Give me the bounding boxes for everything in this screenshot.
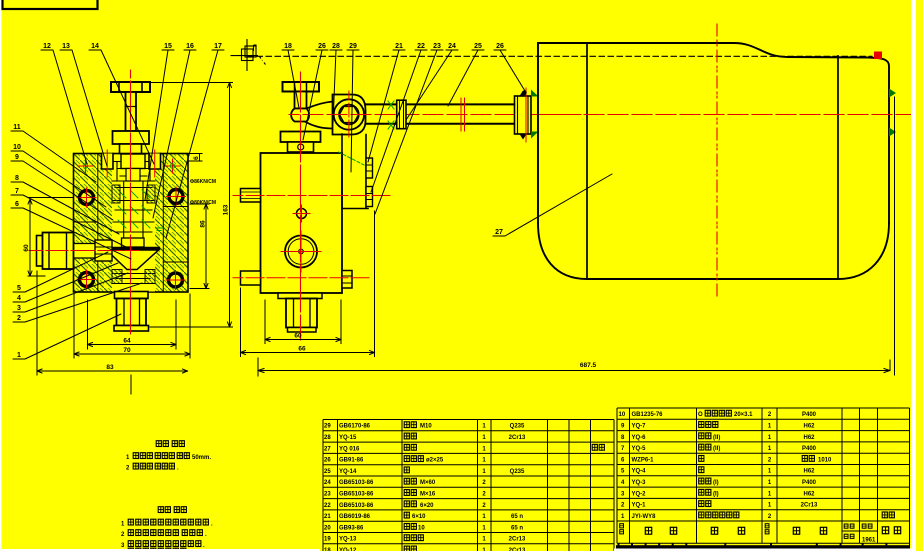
svg-text:66: 66 [298, 346, 306, 353]
svg-text:H62: H62 [803, 469, 815, 475]
piston rod to tank [366, 104, 515, 123]
svg-text:10: 10 [418, 525, 425, 531]
inlet passage from left fitting [74, 244, 113, 259]
svg-text:GB91-86: GB91-86 [339, 458, 364, 464]
svg-text:2Cr13: 2Cr13 [801, 503, 818, 509]
svg-text:60: 60 [23, 244, 30, 252]
waigou in remark col row1 [882, 512, 887, 518]
svg-text:2Cr13: 2Cr13 [509, 537, 526, 543]
red main horizontal axis centerline [289, 114, 581, 116]
leader 3 [13, 273, 128, 312]
leader 29 [347, 50, 359, 172]
BOM table left grid [323, 420, 614, 551]
svg-text:M×16: M×16 [420, 492, 436, 498]
svg-text:YQ-2: YQ-2 [632, 491, 647, 497]
inlet passage clear [74, 244, 112, 258]
svg-text:6×20: 6×20 [420, 503, 434, 509]
svg-text:11: 11 [13, 124, 21, 131]
extension line right for 687.5 [894, 97, 896, 375]
note2 line2 [121, 530, 207, 538]
bolt ring upper-right [169, 190, 183, 204]
svg-text:70: 70 [123, 347, 131, 354]
leader 10 [11, 151, 106, 207]
pivot knuckle [291, 109, 309, 122]
svg-text:H62: H62 [803, 435, 815, 441]
leader 21 [368, 50, 405, 162]
svg-text:13: 13 [62, 43, 70, 50]
svg-text:2Cr13: 2Cr13 [509, 435, 526, 441]
svg-text:23: 23 [324, 492, 331, 498]
leader 14 [89, 50, 154, 164]
svg-text:20×3.1: 20×3.1 [734, 412, 753, 418]
green weld marks at coupling [388, 101, 394, 129]
middle view pump body [261, 153, 343, 293]
dim 66 middle view [241, 211, 375, 357]
svg-text:19: 19 [324, 537, 331, 543]
svg-text:25: 25 [474, 43, 482, 50]
middle handle stem [295, 92, 307, 109]
green dashed seam on bracket [339, 152, 365, 165]
leader 4 [13, 263, 118, 302]
svg-text:(II): (II) [713, 435, 720, 441]
leader 17 [166, 50, 224, 238]
left hex fitting body [43, 233, 74, 270]
bolt ring lower-right [169, 273, 183, 287]
screw stem [126, 92, 137, 131]
leader 28 [330, 50, 342, 123]
svg-text:10: 10 [619, 412, 626, 418]
svg-text:25: 25 [324, 469, 331, 475]
svg-text:GB65103-86: GB65103-86 [339, 492, 374, 498]
svg-text:P400: P400 [802, 446, 817, 452]
fitting red centerline [525, 88, 527, 142]
svg-text:(II): (II) [713, 446, 720, 452]
top gland details inside bore [112, 162, 155, 182]
title block heavy bottom edge [616, 545, 910, 548]
svg-text:163: 163 [223, 204, 230, 215]
dim 6 small top [189, 154, 202, 162]
note2 line3 [121, 541, 205, 549]
svg-text:JYI-WY8: JYI-WY8 [632, 514, 657, 520]
bolt ring lower-left [80, 273, 94, 287]
leader 18 [282, 50, 299, 108]
left table CJK name blocks [404, 422, 604, 551]
valve poppet cone [107, 250, 159, 270]
dim 163 vertical [150, 83, 233, 328]
svg-text:3: 3 [17, 305, 21, 312]
svg-text:60: 60 [294, 333, 302, 340]
svg-text:28: 28 [324, 435, 331, 441]
T-handle bar end lines [119, 82, 142, 92]
technical notes block 1 heading [156, 441, 184, 447]
left view central bore channel [112, 155, 155, 292]
svg-text:83: 83 [106, 364, 114, 371]
valve seat below cone [112, 274, 155, 284]
svg-text:10: 10 [13, 144, 21, 151]
red centerline top stub [233, 195, 390, 197]
svg-text:16: 16 [186, 43, 194, 50]
red vertical centerline middle view [300, 72, 302, 340]
left view inner wall lines [98, 154, 164, 293]
left hex fitting flange [37, 236, 43, 267]
dim 70 horizontal [74, 294, 190, 358]
svg-text:24: 24 [324, 480, 331, 486]
svg-text:28: 28 [332, 43, 340, 50]
stem step line [126, 106, 137, 108]
top-left stub port [241, 189, 261, 203]
svg-text:26: 26 [318, 43, 326, 50]
svg-text:8: 8 [15, 175, 19, 182]
weld triangle black bottom [520, 134, 527, 140]
svg-text:27: 27 [324, 446, 331, 452]
white screen edge bottom [0, 549, 320, 551]
svg-text:YQ-13: YQ-13 [339, 537, 357, 543]
svg-text:M10: M10 [420, 424, 432, 430]
svg-text:Φ86KN/CM: Φ86KN/CM [190, 179, 216, 185]
svg-text:ø2×25: ø2×25 [426, 458, 444, 464]
dim labels [23, 156, 597, 371]
svg-text:GB65103-86: GB65103-86 [339, 503, 374, 509]
red centerline lower stub [233, 277, 369, 279]
valve poppet disc [107, 247, 159, 250]
svg-text:YQ-4: YQ-4 [632, 469, 647, 475]
svg-text:GB93-86: GB93-86 [339, 525, 364, 531]
big bore circle [285, 236, 317, 268]
title block bottom partial row with thick dividers [619, 543, 887, 549]
svg-text:1010: 1010 [818, 457, 832, 463]
leader dot callout 26 [522, 90, 526, 94]
svg-text:(I): (I) [713, 480, 719, 486]
spring zone [113, 188, 154, 233]
red horizontal tank centerline continuation [540, 114, 915, 116]
red vertical centerline left view [130, 70, 132, 334]
green weld dot left [83, 164, 87, 168]
handle base flange [281, 132, 321, 143]
red crosshair bolts [77, 187, 186, 290]
lower-right stub port [342, 271, 352, 289]
leader 13 [60, 50, 107, 166]
left fitting hex facet lines [49, 233, 67, 270]
bracket plate right of body [342, 134, 368, 209]
note2 line4 clipped [128, 548, 186, 551]
leader 27 [493, 174, 612, 236]
svg-text:23: 23 [433, 43, 441, 50]
dim 687.5 overall [258, 358, 890, 376]
bottom fitting flange [115, 292, 149, 299]
leader 7 [11, 195, 126, 247]
svg-text:WZP6-1: WZP6-1 [632, 457, 655, 463]
weld triangle green top [531, 90, 539, 97]
right table row texts [619, 412, 877, 543]
svg-text:M×60: M×60 [420, 480, 436, 486]
note2 line1 [121, 519, 213, 527]
rod coupling [397, 100, 406, 129]
svg-text:9: 9 [15, 154, 19, 161]
svg-text:(I): (I) [713, 491, 719, 497]
svg-text:YQ-1: YQ-1 [632, 503, 647, 509]
bolt hole slot top-right [149, 154, 161, 170]
bracket bolt lower [366, 187, 373, 207]
valve poppet upper stem [122, 238, 145, 247]
svg-text:24: 24 [448, 43, 456, 50]
upper small side cavities [112, 185, 120, 203]
svg-text:YQ-3: YQ-3 [632, 480, 647, 486]
tank shell outline [538, 43, 889, 223]
svg-text:29: 29 [324, 424, 331, 430]
svg-text:YQ-7: YQ-7 [632, 424, 647, 430]
bottom fitting facet lines [124, 299, 140, 326]
leader 9 [11, 161, 113, 220]
leader 11 [11, 131, 96, 182]
center tick below left view [130, 375, 132, 394]
svg-text:2: 2 [17, 315, 21, 322]
waigou mark row27 [592, 444, 597, 450]
left view pump body hatched block [74, 154, 189, 293]
red centerline boss vertical [348, 91, 350, 137]
note1 line1 [126, 453, 211, 461]
red dash-dot-dot vertical tank centerline [716, 24, 718, 296]
svg-text:29: 29 [349, 43, 357, 50]
svg-text:22: 22 [417, 43, 425, 50]
middle bottom fitting base [288, 328, 317, 333]
tank end seam right [837, 56, 839, 279]
leader 25 [448, 50, 484, 106]
red cross top-right hole [165, 159, 180, 173]
dim 83 horizontal [37, 271, 188, 375]
lower-left stub port [241, 271, 261, 285]
right table header [620, 524, 901, 539]
tank bottom with corner radii [538, 223, 889, 279]
svg-text:26: 26 [496, 43, 504, 50]
leader 16 [153, 50, 196, 218]
small port circle [297, 209, 307, 219]
T-handle bar [111, 82, 150, 92]
white screen edge left [0, 0, 2, 551]
leader 23 [375, 50, 443, 214]
tank inlet fitting [515, 96, 532, 134]
left table row texts [324, 424, 526, 551]
svg-text:21: 21 [324, 514, 331, 520]
svg-text:1961: 1961 [862, 538, 876, 544]
bracket bolt upper [366, 158, 373, 178]
svg-text:17: 17 [214, 43, 222, 50]
middle T-handle bar end lines [295, 82, 307, 92]
svg-text:GB6019-86: GB6019-86 [339, 514, 371, 520]
surface finish symbol group [231, 39, 267, 71]
right table CJK name blocks [699, 410, 895, 517]
red crosshair big circle [281, 231, 321, 272]
weld triangle black top [520, 91, 527, 97]
svg-text:YQ-6: YQ-6 [632, 435, 647, 441]
svg-text:12: 12 [43, 43, 51, 50]
svg-text:5: 5 [17, 285, 21, 292]
leader 2 [13, 283, 142, 322]
svg-text:64: 64 [123, 338, 131, 345]
BOM table right grid [617, 408, 910, 549]
green arrows right edge [889, 89, 896, 98]
svg-text:27: 27 [495, 229, 503, 236]
leader 15 [145, 50, 174, 200]
dim 64 horizontal [88, 300, 177, 349]
leader 22 [371, 50, 427, 192]
red centerlines slots [107, 150, 155, 177]
svg-text:6: 6 [193, 156, 200, 160]
bottom fitting base [114, 326, 149, 332]
svg-text:4: 4 [17, 295, 21, 302]
note1 line2 [126, 463, 179, 471]
bottom fitting nut [117, 299, 147, 326]
svg-text:H62: H62 [803, 424, 815, 430]
boss inner hex [340, 107, 359, 123]
red filler square [874, 52, 882, 60]
svg-text:65 n: 65 n [511, 525, 523, 531]
svg-text:65 n: 65 n [511, 514, 523, 520]
boss middle circle [339, 105, 359, 125]
leader 26b [494, 50, 525, 91]
svg-text:14: 14 [91, 43, 99, 50]
red horizontal centerline inlet [29, 250, 139, 252]
svg-text:GB1235-76: GB1235-76 [632, 412, 664, 418]
svg-text:Q235: Q235 [510, 424, 525, 430]
oil level dashed line [248, 55, 872, 57]
svg-text:20: 20 [324, 525, 331, 531]
leader 8 [11, 182, 119, 234]
handle base nut [288, 142, 314, 152]
leader 12 [41, 50, 87, 164]
middle bottom fitting flange [278, 293, 322, 299]
svg-text:YQ-5: YQ-5 [632, 446, 647, 452]
collar nut below [120, 144, 142, 154]
svg-text:P400: P400 [802, 480, 817, 486]
dim 60 middle view [265, 300, 341, 344]
svg-text:H62: H62 [803, 491, 815, 497]
svg-text:1: 1 [17, 352, 21, 359]
tank end seam left [586, 43, 588, 279]
leader 5 [13, 252, 108, 292]
weld triangle green bottom [531, 132, 539, 139]
link arm to boss [303, 102, 333, 129]
svg-text:YQ-14: YQ-14 [339, 469, 357, 475]
leader 1 [13, 314, 121, 359]
red cross top-left hole [79, 159, 94, 173]
boss outer circle [334, 99, 364, 129]
leader 6 [11, 208, 131, 259]
svg-text:50mm.: 50mm. [192, 455, 211, 461]
middle T-handle bar [283, 82, 320, 92]
dim 86 vertical right of left view [190, 204, 209, 289]
title block corner rectangle top-left [3, 0, 98, 9]
svg-text:21: 21 [395, 43, 403, 50]
stem collar [113, 131, 150, 144]
red vertical at coupling [461, 98, 465, 131]
middle bottom fitting nut [286, 299, 317, 328]
svg-text:GB65103-86: GB65103-86 [339, 480, 374, 486]
svg-text:26: 26 [324, 458, 331, 464]
white screen stripe right [911, 0, 916, 551]
svg-text:22: 22 [324, 503, 331, 509]
svg-text:YQ-15: YQ-15 [339, 435, 357, 441]
svg-text:Q235: Q235 [510, 469, 525, 475]
svg-text:15: 15 [164, 43, 172, 50]
bore wall verticals [117, 162, 150, 239]
svg-text:86: 86 [200, 220, 207, 228]
leader 24 [406, 50, 458, 120]
svg-text:18: 18 [284, 43, 292, 50]
bolt ring upper-left [80, 191, 94, 205]
svg-text:7: 7 [15, 188, 19, 195]
dim 60 vertical left [28, 198, 73, 277]
svg-text:O: O [698, 412, 703, 418]
svg-text:GB6170-86: GB6170-86 [339, 424, 371, 430]
small ball in nut [298, 144, 304, 150]
svg-text:P400: P400 [802, 412, 817, 418]
svg-text:687.5: 687.5 [580, 362, 597, 369]
technical notes block 2 heading [158, 507, 186, 513]
svg-text:6: 6 [15, 201, 19, 208]
bolt hole slot top-left [102, 154, 114, 170]
leader 26a [303, 50, 328, 140]
boss housing [333, 95, 366, 135]
svg-text:Φ80KN/CM: Φ80KN/CM [190, 200, 216, 206]
inlet nozzle [95, 240, 112, 261]
svg-text:YQ 016: YQ 016 [339, 446, 360, 452]
svg-text:6×10: 6×10 [412, 514, 426, 520]
red crosshair small circle [293, 205, 310, 222]
